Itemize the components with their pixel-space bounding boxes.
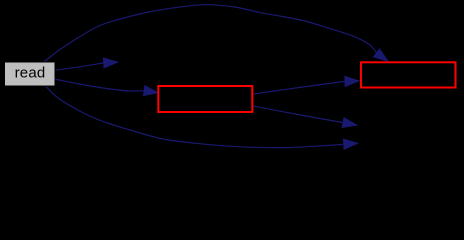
node read (current function, gray) xyxy=(5,62,56,86)
edge read->middle-box xyxy=(55,79,159,96)
edge read->hidden-node-1 xyxy=(55,58,119,71)
edge read->right-box (top arc) xyxy=(44,5,388,62)
node middle-box (red border, callee) xyxy=(158,86,252,112)
edge middle-box->hidden-node-2 xyxy=(253,106,357,128)
edge read->hidden-node-2 (bottom arc) xyxy=(46,87,358,150)
edge middle-box->right-box xyxy=(253,76,360,94)
svg-text:read: read xyxy=(15,65,46,82)
node right-box (red border, callee) xyxy=(361,62,456,87)
